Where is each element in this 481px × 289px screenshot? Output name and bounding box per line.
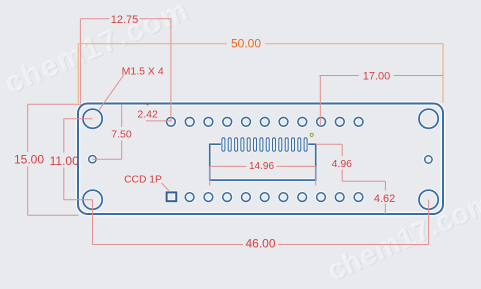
dimension 4.96 xyxy=(316,144,386,181)
bottom row holes xyxy=(185,193,363,202)
white halo casing for hole pattern xyxy=(83,109,438,209)
plate outline xyxy=(78,104,443,215)
dimension texts xyxy=(14,14,395,251)
svg-text:46.00: 46.00 xyxy=(245,237,275,251)
CCD 1P square pad xyxy=(167,192,177,201)
dimension 2.42 leader xyxy=(146,120,171,122)
connector slots xyxy=(222,138,307,151)
dimension 17.00 xyxy=(319,76,443,127)
svg-text:4.62: 4.62 xyxy=(374,193,395,205)
dimension 50.00 xyxy=(78,44,443,103)
svg-text:M1.5 X 4: M1.5 X 4 xyxy=(122,65,164,77)
svg-text:2.42: 2.42 xyxy=(137,109,158,121)
svg-text:15.00: 15.00 xyxy=(14,153,44,167)
dimension 46.00 xyxy=(93,200,429,245)
dimension 4.62 xyxy=(384,181,386,214)
svg-text:12.75: 12.75 xyxy=(111,14,139,26)
svg-text:17.00: 17.00 xyxy=(363,71,391,83)
svg-text:11.00: 11.00 xyxy=(50,154,79,168)
watermark top-left xyxy=(0,0,195,102)
dimension 15.00 xyxy=(28,104,81,215)
svg-text:4.96: 4.96 xyxy=(332,158,353,170)
red point marker xyxy=(147,104,149,106)
mounting holes M1.5 x4 xyxy=(83,109,438,209)
leader CCD 1P xyxy=(162,183,170,191)
svg-text:50.00: 50.00 xyxy=(231,37,261,51)
dimension 11.00 xyxy=(64,119,93,200)
green point marker xyxy=(310,133,313,136)
svg-text:7.50: 7.50 xyxy=(111,129,132,141)
leader M1.5 X 4 xyxy=(99,75,124,111)
svg-text:14.96: 14.96 xyxy=(249,161,274,172)
dimension 7.50 xyxy=(92,104,121,159)
dimension 12.75 xyxy=(80,19,170,122)
svg-text:CCD 1P: CCD 1P xyxy=(124,174,162,185)
connector box outline xyxy=(210,144,316,180)
watermark bottom-right xyxy=(323,185,481,288)
middle small holes xyxy=(89,156,432,164)
dimension 14.96 xyxy=(210,166,316,185)
top row holes xyxy=(167,117,364,126)
